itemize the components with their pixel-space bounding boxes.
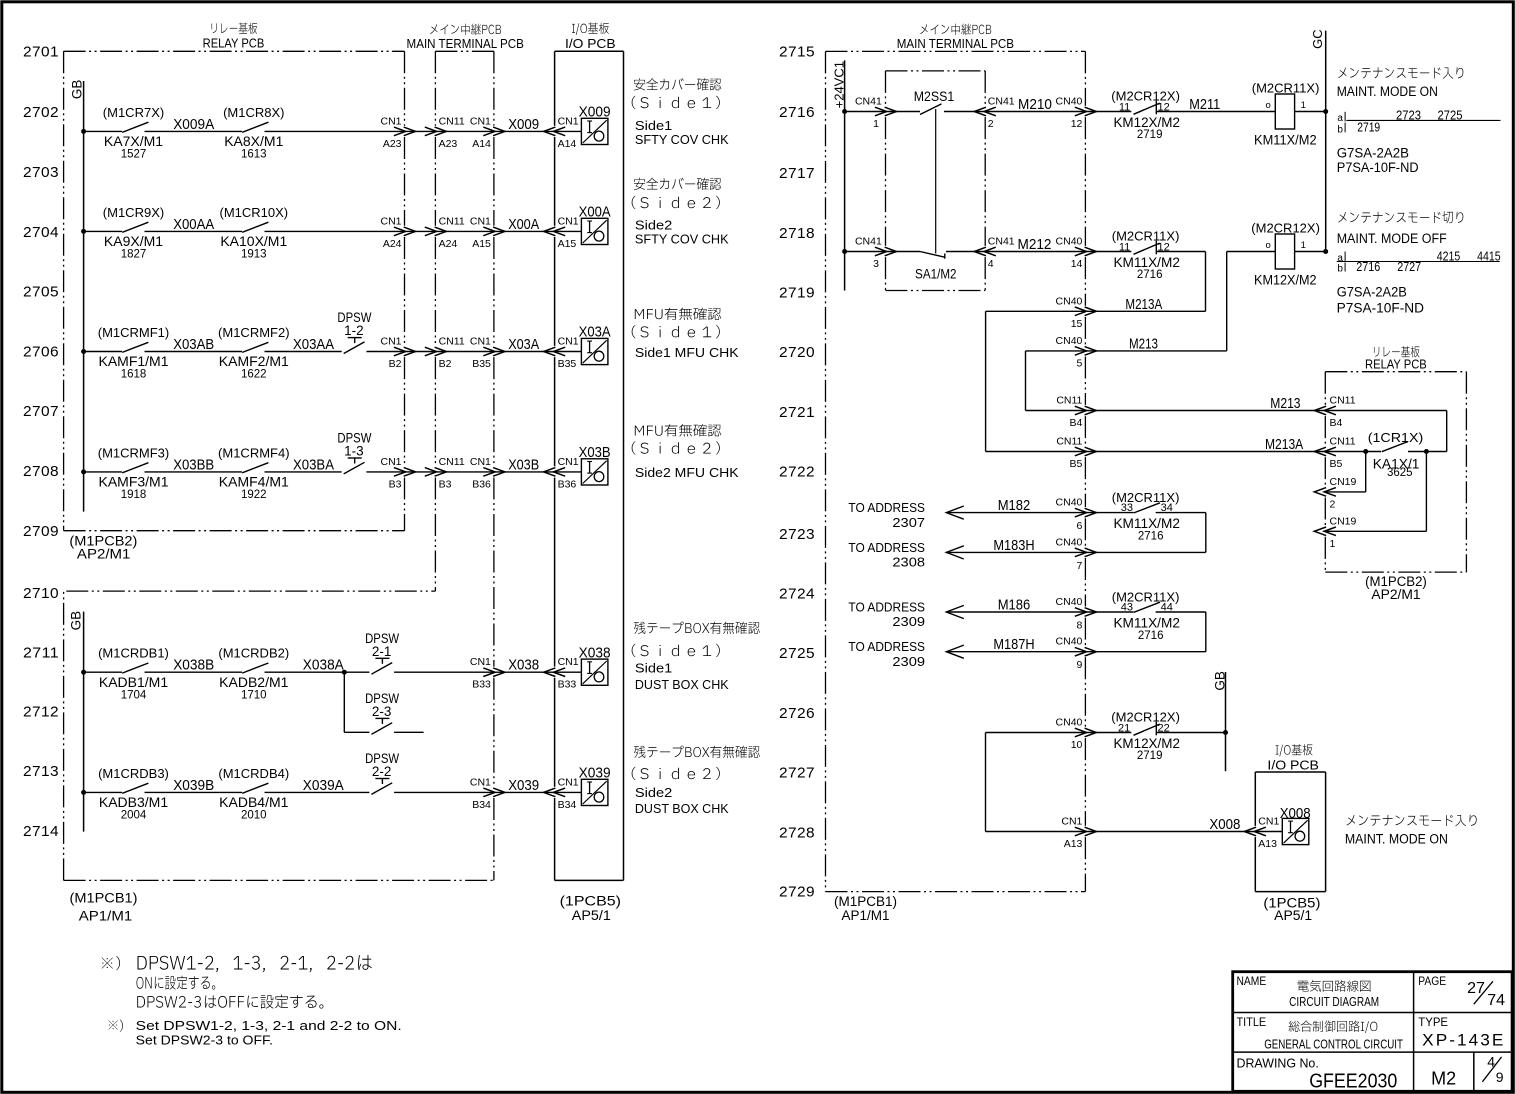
svg-text:CN1: CN1	[470, 456, 491, 468]
svg-text:B4: B4	[1070, 417, 1083, 429]
svg-text:DUST BOX CHK: DUST BOX CHK	[635, 677, 729, 692]
wire M213A (CN40-15)	[986, 311, 1206, 451]
connector CN1 pin A14 (main terminal PCB out)	[470, 115, 505, 149]
svg-text:A15: A15	[472, 238, 491, 250]
svg-text:AP2/M1: AP2/M1	[77, 547, 131, 562]
net name X038	[508, 657, 539, 674]
svg-text:KA8X/M1: KA8X/M1	[224, 133, 283, 149]
svg-text:KAMF1/M1: KAMF1/M1	[98, 353, 168, 369]
svg-text:(M2CR12X): (M2CR12X)	[1251, 220, 1320, 235]
svg-text:(M1CR10X): (M1CR10X)	[219, 205, 288, 220]
svg-text:RELAY PCB: RELAY PCB	[203, 36, 265, 51]
+24VC1 net label	[831, 61, 846, 108]
relay contact M2CR11X KM11X/M2 (NO 33-34)	[1112, 490, 1180, 543]
heading I/O PCB (right)	[1267, 744, 1319, 772]
title block TYPE cell	[1418, 1015, 1505, 1049]
I/O module X039	[579, 765, 611, 806]
svg-text:CN41: CN41	[988, 96, 1015, 108]
svg-text:(M1CR8X): (M1CR8X)	[223, 105, 284, 120]
net label M210	[1018, 96, 1052, 113]
svg-text:12: 12	[1071, 118, 1083, 130]
svg-text:KM11X/M2: KM11X/M2	[1254, 131, 1317, 147]
node junction 1CR1X left	[1363, 449, 1368, 454]
connector CN1 pin A15 (main terminal PCB out)	[470, 215, 505, 250]
svg-text:CN1: CN1	[470, 215, 491, 227]
svg-text:AP1/M1: AP1/M1	[842, 908, 890, 923]
title block PAGE cell	[1418, 974, 1505, 1009]
connector CN1 pin A14 (I/O PCB edge)	[544, 115, 579, 149]
wire to connectors	[265, 130, 582, 132]
svg-text:M213: M213	[1129, 335, 1158, 352]
svg-text:CN1: CN1	[470, 656, 491, 668]
relay contact M1CRDB3 KADB3/M1	[98, 766, 169, 822]
svg-text:2309: 2309	[892, 614, 925, 629]
I/O PCB board outline 1PCB5 (left)	[555, 51, 624, 880]
relay contact M1CR8X KA8X/M1	[223, 105, 284, 161]
node junction 1CR1X right	[1424, 449, 1429, 454]
svg-text:KADB1/M1: KADB1/M1	[99, 674, 168, 690]
mechanical linkage M2SS1-SA1	[935, 109, 937, 254]
svg-text:M2: M2	[1431, 1069, 1456, 1089]
svg-text:2708: 2708	[23, 463, 59, 480]
svg-text:CN40: CN40	[1056, 636, 1083, 648]
right rung number column 2715-2729	[779, 44, 815, 901]
svg-text:CN40: CN40	[1056, 295, 1083, 307]
svg-text:X00AA: X00AA	[173, 217, 214, 233]
svg-text:G7SA-2A2B: G7SA-2A2B	[1337, 146, 1409, 161]
svg-text:DUST BOX CHK: DUST BOX CHK	[635, 801, 729, 816]
svg-text:2705: 2705	[23, 283, 59, 300]
selector switch contact M2SS1	[914, 88, 955, 114]
svg-text:A23: A23	[383, 138, 402, 150]
connector CN19 pin 2	[1314, 476, 1356, 511]
selector switch contact SA1/M2	[915, 252, 957, 282]
svg-text:Side1 MFU CHK: Side1 MFU CHK	[635, 345, 739, 360]
relay coil M2CR11X KM11X/M2	[1252, 80, 1320, 147]
svg-text:X00A: X00A	[579, 204, 611, 221]
svg-text:AP5/1: AP5/1	[572, 908, 611, 923]
relay PCB board outline M1PCB2 (left)	[64, 51, 405, 530]
connector CN1 pin B33 (main terminal PCB out)	[470, 656, 505, 691]
GB bus (left upper)	[68, 80, 85, 511]
wire M182 to address 2307	[848, 497, 1133, 530]
svg-text:2725: 2725	[779, 645, 815, 662]
svg-text:2701: 2701	[23, 44, 59, 61]
svg-text:1922: 1922	[241, 489, 267, 501]
wire M213A (CN11-B5)	[986, 451, 1447, 453]
relay contact M1CRMF3 KAMF3/M1	[98, 445, 170, 501]
wire X00A rung segment 1	[84, 230, 122, 232]
svg-text:X00A: X00A	[508, 216, 539, 233]
title block NAME cell	[1237, 974, 1380, 1009]
svg-text:X038: X038	[508, 657, 539, 674]
board label (1PCB5) AP5/1 (left)	[560, 894, 621, 924]
GB net label (right)	[1212, 671, 1227, 691]
svg-text:CN11: CN11	[1056, 395, 1082, 407]
svg-text:(M1CRDB3): (M1CRDB3)	[98, 766, 169, 781]
svg-text:M183H: M183H	[993, 537, 1034, 554]
I/O module X009	[579, 104, 611, 145]
svg-text:CN11: CN11	[1330, 436, 1356, 448]
node junction on GB bus y=792	[81, 790, 86, 795]
svg-text:10: 10	[1071, 739, 1083, 751]
svg-text:AP2/M1: AP2/M1	[1371, 587, 1420, 602]
connector CN40 pin 6	[1056, 497, 1097, 532]
svg-text:G7SA-2A2B: G7SA-2A2B	[1337, 285, 1407, 300]
relay contact M1CR10X KA10X/M1	[219, 205, 288, 261]
wire net X03BB	[145, 457, 243, 473]
svg-text:KM11X/M2: KM11X/M2	[1113, 515, 1180, 531]
GB bus (right)	[1225, 672, 1227, 771]
svg-text:1613: 1613	[241, 149, 267, 161]
I/O module X00A	[579, 204, 611, 245]
svg-text:A23: A23	[439, 138, 458, 150]
relay contact M1CR7X KA7X/M1	[103, 105, 164, 161]
title block TITLE cell	[1237, 1015, 1404, 1051]
svg-text:CN1: CN1	[380, 115, 401, 127]
node junction on GB bus y=131	[81, 129, 86, 134]
svg-text:4: 4	[988, 258, 994, 270]
svg-text:43: 43	[1121, 602, 1133, 614]
svg-text:2717: 2717	[779, 165, 815, 182]
svg-text:A14: A14	[558, 138, 577, 150]
connector CN41 pin 4	[974, 236, 1015, 271]
node junction on GB bus y=472	[81, 469, 86, 474]
svg-text:M187H: M187H	[993, 636, 1034, 653]
svg-text:2707: 2707	[23, 403, 59, 420]
board label (1PCB5) AP5/1 (right)	[1263, 896, 1320, 924]
svg-text:2719: 2719	[1137, 750, 1163, 762]
wire to connectors	[394, 671, 581, 673]
wire M213 (CN11-B4)	[1026, 411, 1447, 452]
svg-text:A15: A15	[558, 238, 577, 250]
wire M187H to address 2309	[848, 636, 1205, 669]
node junction on GB bus	[1223, 730, 1228, 735]
svg-text:(1CR1X): (1CR1X)	[1368, 430, 1424, 445]
title block sheet 4/9 cell	[1482, 1053, 1503, 1084]
svg-text:GC: GC	[1310, 29, 1325, 49]
annotation 安全カバー確認 （Ｓｉｄｅ１）	[632, 78, 729, 147]
svg-text:2722: 2722	[779, 464, 815, 481]
svg-text:2724: 2724	[779, 586, 815, 603]
svg-text:2728: 2728	[779, 824, 815, 841]
svg-text:AP1/M1: AP1/M1	[79, 908, 133, 923]
svg-text:1622: 1622	[241, 369, 267, 381]
svg-text:GB: GB	[1212, 671, 1227, 691]
svg-text:CN11: CN11	[439, 115, 465, 127]
net label M213A (CN40-15)	[1125, 296, 1162, 313]
svg-text:KA10X/M1: KA10X/M1	[220, 233, 287, 249]
svg-text:2308: 2308	[892, 555, 925, 570]
svg-text:CN40: CN40	[1056, 335, 1083, 347]
svg-text:CN1: CN1	[558, 215, 579, 227]
relay PCB board outline M1PCB2 (right)	[1325, 372, 1466, 572]
I/O module X03A	[579, 324, 611, 365]
svg-text:CN1: CN1	[470, 115, 491, 127]
svg-text:2727: 2727	[1397, 260, 1421, 274]
svg-text:CN40: CN40	[1056, 596, 1083, 608]
DIP switch DPSW 1-3	[337, 431, 371, 474]
wire net X00AA	[145, 217, 243, 233]
svg-text:1827: 1827	[121, 249, 147, 261]
svg-text:(M1CRDB4): (M1CRDB4)	[218, 766, 289, 781]
svg-text:KADB3/M1: KADB3/M1	[99, 794, 168, 810]
net name X00A	[508, 216, 539, 233]
svg-text:XP-143E: XP-143E	[1422, 1030, 1505, 1049]
svg-text:RELAY PCB: RELAY PCB	[1365, 356, 1427, 371]
svg-text:X03B: X03B	[579, 444, 611, 461]
connector CN1 pin B35 (I/O PCB edge)	[544, 336, 579, 371]
selector switch enclosure box (M2SS1/SA1)	[886, 71, 986, 291]
wire net X03AA	[265, 337, 342, 353]
svg-text:2726: 2726	[779, 705, 815, 722]
wire net X038B	[145, 658, 243, 674]
wire contact loop down	[1156, 513, 1206, 553]
wire net X03BA	[265, 457, 342, 473]
connector CN1 pin B2 (relay PCB edge)	[380, 336, 415, 371]
svg-text:KM12X/M2: KM12X/M2	[1113, 735, 1180, 751]
svg-text:TO ADDRESS: TO ADDRESS	[848, 500, 925, 515]
svg-text:KAMF2/M1: KAMF2/M1	[219, 353, 289, 369]
svg-text:X03BA: X03BA	[293, 457, 334, 473]
wire X038 rung segment 1	[84, 671, 122, 673]
wire M213 (CN40-5)	[1026, 351, 1227, 411]
heading I/O PCB (left)	[565, 23, 616, 51]
svg-text:M211: M211	[1189, 96, 1220, 113]
contact cross-reference table M2CR11X	[1337, 108, 1501, 175]
svg-text:Side1: Side1	[635, 118, 672, 133]
svg-text:33: 33	[1121, 502, 1133, 514]
svg-text:(M1PCB1): (M1PCB1)	[834, 894, 897, 909]
connector CN1 pin B36 (I/O PCB edge)	[544, 456, 579, 491]
svg-text:B35: B35	[558, 358, 577, 370]
svg-text:1913: 1913	[241, 249, 267, 261]
svg-text:2723: 2723	[1396, 108, 1421, 122]
svg-text:(M1CRMF1): (M1CRMF1)	[98, 325, 170, 340]
svg-text:1-2: 1-2	[344, 323, 364, 338]
net label M213 (CN40-5)	[1129, 335, 1158, 352]
svg-text:b: b	[1337, 264, 1343, 275]
board label (M1PCB2) AP2/M1 (left)	[69, 534, 137, 562]
svg-text:B33: B33	[472, 679, 491, 691]
svg-text:9: 9	[1496, 1069, 1504, 1085]
connector CN11 pin B2 (main terminal PCB)	[425, 336, 465, 371]
connector CN11 pin B5 (relay PCB)	[1314, 436, 1355, 471]
relay contact M1CRDB1 KADB1/M1	[98, 646, 169, 702]
svg-text:MAIN TERMINAL PCB: MAIN TERMINAL PCB	[407, 36, 524, 51]
connector CN1 pin A15 (I/O PCB edge)	[544, 215, 579, 250]
svg-text:CN11: CN11	[1056, 436, 1082, 448]
svg-text:CN11: CN11	[1330, 395, 1356, 407]
wire M210 segment	[944, 111, 1131, 113]
svg-text:M182: M182	[998, 497, 1031, 514]
wire to connectors	[265, 230, 582, 232]
GB bus (left lower)	[83, 612, 85, 832]
svg-text:CN1: CN1	[470, 336, 491, 348]
wire net X039A	[265, 778, 370, 794]
svg-text:KADB2/M1: KADB2/M1	[219, 674, 288, 690]
wire stub after DPSW 2-3	[394, 731, 424, 733]
svg-text:KM11X/M2: KM11X/M2	[1113, 254, 1180, 270]
board label (M1PCB2) AP2/M1 (right)	[1365, 574, 1427, 602]
connector CN1 pin B33 (I/O PCB edge)	[544, 656, 579, 691]
relay contact M2CR12X KM12X/M2 (NC 11-12)	[1111, 89, 1180, 142]
svg-text:X009A: X009A	[173, 117, 214, 133]
relay contact M1CR9X KA9X/M1	[103, 205, 164, 261]
I/O module X03B	[579, 444, 611, 485]
node junction on GB bus y=352	[81, 349, 86, 354]
svg-text:CN1: CN1	[558, 656, 579, 668]
svg-text:21: 21	[1118, 723, 1130, 735]
svg-text:2-3: 2-3	[372, 704, 392, 719]
DIP switch DPSW 2-1	[365, 631, 399, 674]
wire X03A rung segment 1	[84, 351, 122, 353]
svg-text:TO ADDRESS: TO ADDRESS	[848, 599, 925, 614]
svg-text:P7SA-10F-ND: P7SA-10F-ND	[1337, 160, 1419, 175]
svg-text:GENERAL CONTROL CIRCUIT: GENERAL CONTROL CIRCUIT	[1264, 1036, 1403, 1051]
svg-text:2718: 2718	[779, 225, 815, 242]
connector CN40 pin 10	[1056, 717, 1097, 752]
svg-text:CN1: CN1	[380, 215, 401, 227]
connector CN40 pin 8	[1056, 596, 1097, 632]
svg-text:3625: 3625	[1387, 467, 1413, 479]
svg-text:2716: 2716	[779, 104, 815, 121]
connector CN41 pin 2	[974, 96, 1015, 131]
wire M211	[1156, 96, 1275, 113]
wire to connectors	[366, 471, 581, 473]
svg-text:KA7X/M1: KA7X/M1	[104, 133, 163, 149]
contact cross-reference table M2CR12X	[1337, 249, 1501, 315]
svg-text:2723: 2723	[779, 526, 815, 543]
svg-text:7: 7	[1077, 560, 1083, 572]
main terminal PCB board outline M1PCB1 (right)	[826, 51, 1086, 891]
svg-text:X038B: X038B	[173, 658, 214, 674]
wire rung 2718	[845, 251, 920, 253]
svg-text:CN11: CN11	[439, 456, 465, 468]
svg-text:MAIN TERMINAL PCB: MAIN TERMINAL PCB	[897, 36, 1014, 51]
svg-text:2010: 2010	[241, 810, 267, 822]
net label M213A (CN11-B5)	[1265, 436, 1303, 453]
svg-text:CN40: CN40	[1056, 717, 1083, 729]
svg-text:2719: 2719	[1137, 129, 1163, 141]
svg-text:X03AA: X03AA	[293, 337, 334, 353]
node junction X038A branch	[342, 670, 347, 675]
svg-text:(M1CRMF2): (M1CRMF2)	[218, 325, 290, 340]
svg-text:M213A: M213A	[1125, 296, 1162, 313]
svg-text:(1PCB5): (1PCB5)	[560, 894, 621, 909]
connector CN11 pin B3 (main terminal PCB)	[425, 456, 465, 491]
heading relay PCB (right)	[1365, 346, 1427, 371]
connector CN40 pin 14	[1056, 236, 1097, 271]
connector CN1 pin A13 (I/O PCB)	[1244, 816, 1279, 851]
wire net X038A	[265, 658, 370, 674]
relay contact M1CRDB2 KADB2/M1	[218, 646, 289, 702]
svg-text:1: 1	[1301, 100, 1306, 111]
svg-text:b: b	[1337, 124, 1343, 135]
wire to connectors	[366, 351, 581, 353]
svg-text:CN19: CN19	[1330, 515, 1357, 527]
heading relay PCB (left)	[203, 23, 265, 51]
svg-text:B5: B5	[1070, 458, 1083, 470]
I/O PCB board outline 1PCB5 (right)	[1255, 772, 1325, 892]
svg-text:2: 2	[988, 118, 994, 130]
svg-text:CN1: CN1	[558, 336, 579, 348]
svg-text:M213A: M213A	[1265, 436, 1303, 453]
wire rung 2726 (KM12X contact)	[986, 733, 1132, 832]
svg-text:(M1CRMF3): (M1CRMF3)	[98, 445, 170, 460]
svg-text:KM12X/M2: KM12X/M2	[1113, 114, 1180, 130]
svg-text:2716: 2716	[1138, 531, 1164, 543]
relay contact M1CRMF2 KAMF2/M1	[218, 325, 290, 381]
svg-text:1710: 1710	[241, 689, 267, 701]
connector CN1 pin B34 (main terminal PCB out)	[470, 776, 505, 811]
annotation MFU有無確認 （Ｓｉｄｅ２）	[632, 424, 739, 480]
svg-text:B2: B2	[439, 358, 452, 370]
svg-text:Set DPSW1-2, 1-3, 2-1 and 2-2: Set DPSW1-2, 1-3, 2-1 and 2-2 to ON.	[136, 1018, 402, 1033]
svg-text:Side2: Side2	[635, 785, 672, 800]
connector CN40 pin 7	[1056, 536, 1097, 572]
svg-text:M2SS1: M2SS1	[914, 88, 955, 104]
svg-text:(M2CR11X): (M2CR11X)	[1252, 80, 1320, 95]
wire M212 segment	[946, 251, 1131, 253]
svg-text:B3: B3	[389, 478, 402, 490]
connector CN1 pin A24 (relay PCB edge)	[380, 215, 415, 250]
svg-text:4415: 4415	[1477, 249, 1501, 263]
svg-text:X039B: X039B	[173, 778, 214, 794]
svg-text:+24VC1: +24VC1	[831, 61, 846, 108]
svg-text:KAMF3/M1: KAMF3/M1	[98, 474, 168, 490]
svg-text:2727: 2727	[779, 765, 815, 782]
wire net X03AB	[145, 337, 243, 353]
svg-text:TO ADDRESS: TO ADDRESS	[848, 639, 925, 654]
svg-text:CN1: CN1	[470, 776, 491, 788]
svg-text:CN1: CN1	[558, 776, 579, 788]
GC bus	[1325, 31, 1327, 252]
DIP switch DPSW 1-2	[337, 310, 371, 353]
svg-text:2712: 2712	[23, 704, 59, 721]
svg-text:X03BB: X03BB	[173, 457, 214, 473]
net label M212	[1018, 236, 1052, 253]
svg-text:(M1CR9X): (M1CR9X)	[103, 205, 164, 220]
svg-text:CN40: CN40	[1056, 536, 1083, 548]
svg-text:CN1: CN1	[1061, 816, 1082, 828]
GB net label (upper)	[69, 80, 84, 100]
svg-text:CN1: CN1	[380, 456, 401, 468]
wire X039 rung segment 1	[84, 791, 122, 793]
net name X009	[508, 116, 539, 133]
annotation 残テープBOX有無確認 （Ｓｉｄｅ１）	[632, 622, 760, 692]
svg-text:2720: 2720	[779, 344, 815, 361]
svg-text:TYPE: TYPE	[1418, 1015, 1448, 1029]
svg-text:B3: B3	[439, 478, 452, 490]
connector CN1 pin B34 (I/O PCB edge)	[544, 776, 579, 811]
wire coil to GC bus	[1295, 111, 1326, 113]
svg-text:X03AB: X03AB	[173, 337, 214, 353]
wire M186 to address 2309	[848, 597, 1133, 630]
node junction +24VC1 rung 2718	[842, 249, 847, 254]
svg-text:X039A: X039A	[303, 778, 344, 794]
wire to connectors	[394, 791, 581, 793]
wire coil to GC bus (2718)	[1295, 251, 1326, 253]
svg-text:2725: 2725	[1438, 108, 1463, 122]
connector CN1 pin B35 (main terminal PCB out)	[470, 336, 505, 371]
svg-text:CN11: CN11	[439, 336, 465, 348]
svg-text:3: 3	[873, 258, 879, 270]
connector CN40 pin 12	[1056, 96, 1097, 131]
node junction on GB bus y=672	[81, 670, 86, 675]
title block frame	[1233, 972, 1512, 1092]
svg-text:1: 1	[1330, 538, 1336, 550]
